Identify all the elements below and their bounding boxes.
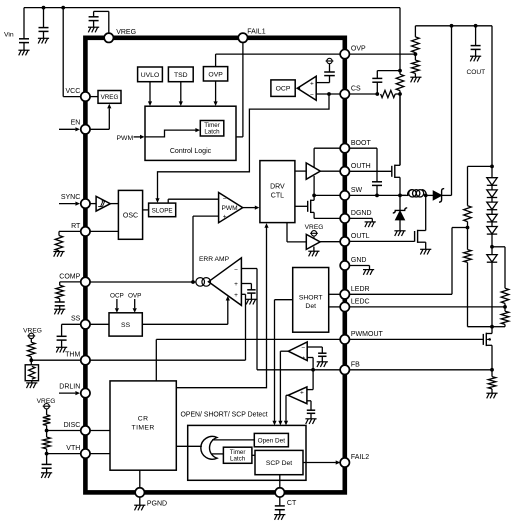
svg-text:SHORT: SHORT [299, 294, 323, 301]
svg-text:SYNC: SYNC [61, 194, 80, 201]
resistor R_led4 [501, 311, 509, 324]
svg-text:PWM: PWM [222, 205, 238, 212]
ground (C_ct) [274, 514, 285, 516]
wire FB to cmp2 + [312, 370, 314, 390]
FAIL2 pin [340, 458, 349, 467]
transistor Q2 (external NMOS) [414, 231, 416, 242]
block OSC [118, 190, 142, 239]
svg-text:BOOT: BOOT [351, 140, 372, 147]
wire DRV to high driver [295, 170, 306, 172]
node Vin rail junction 1 [42, 6, 46, 10]
ground (C_in1) [18, 49, 29, 51]
block VREG regulator [98, 91, 121, 104]
ground (C_vreg) [88, 26, 99, 28]
thermistor TH1 [25, 365, 38, 381]
wire CS to slope path [158, 94, 330, 199]
wire SLOPE to PWM - [167, 199, 169, 203]
wire LEDC external [349, 306, 505, 308]
block SCP Det [255, 450, 303, 474]
arrow SS into ERR AMP [226, 296, 230, 301]
wire THM to ERR +2 [90, 359, 246, 361]
svg-text:DRV: DRV [270, 184, 285, 191]
capacitor C_in2 [39, 27, 49, 29]
wire PWM + to ERR output [192, 216, 194, 282]
svg-text:+: + [310, 81, 314, 88]
node FB junction [311, 368, 315, 372]
resistor R_ovp1 [412, 37, 420, 53]
source VREG (OUTL driver) [311, 231, 316, 236]
wire LED tap to R1 [468, 165, 493, 167]
svg-text:RT: RT [71, 223, 81, 230]
diode D2 (freewheel schottky) [399, 195, 401, 210]
svg-text:OUTH: OUTH [351, 163, 371, 170]
ground (C_errp) [246, 298, 257, 300]
wire Vin to VCC pin [62, 8, 64, 97]
node LEDR divider tap [466, 226, 470, 230]
arrow SYNC input [59, 203, 75, 205]
wire Timer Latch to SCP Det [252, 454, 255, 456]
block Timer Latch (control logic) [200, 121, 224, 137]
comparator U_cmp2 [288, 387, 307, 404]
node OVP divider tap [414, 52, 418, 56]
EN pin [81, 125, 90, 134]
capacitor C_ss [57, 335, 67, 337]
svg-text:OVP: OVP [351, 46, 366, 53]
wire cmp1 - to cap [307, 346, 322, 348]
capacitor C_in1 [19, 38, 29, 40]
wire R_led4 to bottom node [504, 324, 506, 326]
wire LEDC to SHORT Det [329, 306, 341, 308]
wire R_ovp2 to ground [414, 73, 416, 77]
FAIL1 pin [238, 33, 247, 42]
VTH pin [81, 449, 90, 458]
LEDR pin [340, 290, 349, 299]
arrow EN input [59, 128, 75, 130]
block UVLO [138, 67, 163, 82]
wire DISC divider upper [46, 409, 48, 415]
wire cmp2 output to detect [286, 394, 288, 396]
arrow into SLOPE [155, 198, 159, 203]
svg-text:PWMOUT: PWMOUT [351, 331, 384, 338]
svg-text:−: − [223, 196, 227, 203]
wire OCP - input to CS [316, 93, 340, 95]
resistor R_led3 [501, 288, 509, 303]
node CS internal tap [327, 92, 331, 96]
wire OUTL to FET2 gate [349, 240, 414, 242]
wire SS external [62, 323, 81, 325]
block OCP [271, 80, 295, 97]
SYNC pin [81, 199, 90, 208]
buffer SYNC schmitt [90, 203, 96, 205]
svg-text:DGND: DGND [351, 210, 372, 217]
node VOUT-diode junction [450, 24, 454, 28]
svg-text:Open Det: Open Det [258, 437, 286, 444]
arrow cmp1 into detect [278, 421, 282, 426]
wire ERR - input [241, 268, 257, 270]
wire CR TIMER to PGND [139, 470, 141, 488]
arrow PWM to DRV CTL [243, 207, 255, 209]
resistor R_sense [396, 74, 404, 90]
transistor Q3 (PWM dimming NMOS) [482, 334, 484, 345]
node sense node X [398, 92, 402, 96]
symbol ERR AMP output stage [196, 278, 205, 287]
wire Vin input leg [23, 8, 25, 39]
wire OUTH to FET1 gate [349, 170, 391, 172]
GND pin [340, 261, 349, 270]
THM pin [81, 356, 90, 365]
wire SW internal [314, 194, 340, 196]
wire LEDR external [349, 293, 452, 295]
wire SS block to ERR AMP [142, 323, 228, 325]
capacitor C_cmp1 [318, 352, 326, 354]
svg-text:−: − [300, 399, 304, 406]
LEDC pin [340, 302, 349, 311]
capacitor C_errp [247, 289, 255, 291]
comparator OCP (U_ocp) [297, 76, 316, 100]
node LED string top [490, 165, 494, 169]
block SS [109, 313, 142, 336]
RT pin [81, 227, 90, 236]
svg-text:−: − [234, 267, 238, 274]
svg-text:OCP: OCP [110, 292, 124, 299]
arrow EN into VREG [108, 108, 110, 129]
svg-text:Vin: Vin [4, 31, 14, 38]
block CR TIMER [110, 381, 176, 470]
ground (C_ss) [56, 346, 67, 348]
wire LED string [491, 166, 493, 326]
svg-text:COMP: COMP [59, 273, 80, 280]
node FB sense junction [490, 368, 494, 372]
wire DISC to CR TIMER [90, 430, 110, 432]
svg-text:CTL: CTL [271, 193, 284, 200]
wire OUTL driver to pin [320, 241, 340, 243]
wire FB internal [257, 369, 340, 371]
capacitor C_ocp_ref [324, 71, 335, 73]
resistor R_led1 [464, 206, 472, 222]
ground (OVP divider) [410, 76, 421, 78]
svg-text:−: − [310, 92, 314, 99]
wire SW external [349, 194, 406, 196]
BOOT pin [340, 144, 349, 153]
FB pin [340, 365, 349, 374]
arrow SHORT Det into detect [272, 421, 276, 426]
ground (C_vth) [41, 472, 52, 474]
block detect outer [188, 425, 306, 480]
wire COMP external [60, 281, 81, 283]
wire SS pin to SS block [90, 323, 109, 325]
resistor R_vth [43, 437, 51, 449]
wire EN to VREG block [90, 128, 109, 130]
source VREG (THM) [29, 333, 34, 338]
ground (R_fb) [486, 392, 497, 394]
wire sense node to FET1 drain [399, 94, 401, 165]
svg-text:CT: CT [287, 500, 297, 507]
wire inductor to junction [400, 194, 409, 196]
wire R_fb to ground [491, 389, 493, 393]
wire C_cs leads [376, 82, 378, 94]
svg-text:COUT: COUT [466, 69, 485, 76]
wire diode cathode to VOUT [451, 26, 453, 196]
diode D1 (series schottky) [433, 191, 441, 200]
block Open Det [254, 433, 288, 446]
node COMP junction [191, 280, 195, 284]
svg-text:Control Logic: Control Logic [170, 148, 212, 155]
block OVP detector [203, 67, 227, 81]
ground (DGND) [365, 221, 376, 223]
wire R to sense node [395, 93, 400, 95]
wire DISC divider lower [46, 431, 48, 438]
wire SHORT Det to detect block [275, 299, 293, 301]
svg-text:VTH: VTH [66, 445, 80, 452]
block DRV CTL [260, 161, 295, 223]
capacitor C_comp [55, 301, 65, 303]
svg-text:CS: CS [351, 86, 361, 93]
VREG pin [104, 33, 113, 42]
svg-text:OVP: OVP [128, 292, 142, 299]
wire VREG pin decoupling [108, 11, 110, 33]
wire PWMOUT internal [156, 338, 340, 340]
block SLOPE [149, 203, 176, 217]
svg-text:GND: GND [351, 257, 367, 264]
block SHORT Det [293, 268, 329, 333]
svg-text:−: − [301, 345, 305, 352]
svg-text:OCP: OCP [276, 86, 291, 93]
svg-text:OSC: OSC [123, 212, 138, 219]
wire to C_in2 [43, 8, 45, 28]
node Vin rail junction 2 [61, 6, 65, 10]
svg-text:LEDC: LEDC [351, 299, 370, 306]
svg-text:EN: EN [71, 120, 81, 127]
wire OVP pin to divider [345, 53, 416, 55]
node VOUT-COUT junction [474, 24, 478, 28]
svg-text:LEDR: LEDR [351, 286, 370, 293]
wire CS pin to RC [345, 93, 378, 95]
DGND pin [340, 214, 349, 223]
svg-text:CR: CR [138, 416, 149, 423]
svg-text:+: + [223, 214, 227, 221]
arrow CR TIMER to DRV CTL [176, 227, 266, 388]
arrow OVP to SS [134, 299, 136, 308]
svg-text:OUTL: OUTL [351, 233, 370, 240]
wire THM divider [30, 339, 32, 343]
wire OUTL driver ground lead [313, 247, 315, 252]
DISC pin [81, 426, 90, 435]
CS pin [340, 89, 349, 98]
wire COUT leg [475, 26, 477, 46]
resistor R_cs_filter [381, 90, 396, 97]
capacitor COUT [471, 45, 481, 47]
ground (Q2 source) [420, 248, 431, 250]
svg-text:+: + [234, 281, 238, 288]
wire DRV to OUTL driver [286, 223, 288, 242]
capacitor C_cmp2 [307, 409, 315, 411]
ground (COUT) [470, 55, 481, 57]
wire OR to Open Det [212, 439, 254, 441]
svg-text:FAIL1: FAIL1 [247, 28, 265, 35]
resistor R_rt [55, 236, 63, 251]
wire FB external [349, 369, 492, 371]
resistor R_fb [488, 377, 496, 389]
ground (R_rt) [53, 251, 64, 253]
comparator U_cmp1 [288, 342, 307, 361]
svg-text:THM: THM [65, 352, 80, 359]
comparator PWM (U_pwm) [219, 193, 243, 223]
arrow OCP comparator output [296, 86, 300, 90]
ground (COMP) [54, 308, 65, 310]
wire SCP Det to CT [279, 475, 281, 488]
svg-text:TIMER: TIMER [132, 425, 155, 432]
wire VTH cap leads [46, 454, 48, 465]
PGND pin [135, 488, 144, 497]
OUTL pin [340, 237, 349, 246]
svg-text:OPEN/ SHORT/ SCP Detect: OPEN/ SHORT/ SCP Detect [181, 412, 268, 419]
svg-text:+: + [301, 355, 305, 362]
source VREG (DISC) [44, 404, 49, 409]
node DISC tap [45, 429, 49, 433]
wire OR to Timer Latch [212, 453, 223, 455]
driver high-side [306, 163, 320, 179]
wire CT cap leads [279, 497, 281, 506]
OVP pin [340, 49, 349, 58]
node LED string tap [490, 245, 494, 249]
svg-text:VREG: VREG [116, 29, 136, 36]
wire OCP reference chain [329, 64, 331, 72]
svg-text:VCC: VCC [66, 88, 81, 95]
node CS RC junction A [375, 92, 379, 96]
SW pin [340, 191, 349, 200]
ground (C_cmp1) [317, 361, 328, 363]
CT pin [275, 488, 284, 497]
ground (PGND) [134, 504, 145, 506]
COMP pin [81, 277, 90, 286]
wire tap to R3 chain [492, 246, 505, 248]
capacitor C_vth [42, 463, 52, 465]
svg-text:FAIL2: FAIL2 [351, 454, 369, 461]
gate OR (detect) [201, 436, 217, 459]
IC boundary [85, 38, 344, 493]
svg-text:SS: SS [121, 322, 131, 329]
ground (C_in2) [38, 37, 49, 39]
wire LEDR to SHORT Det [329, 293, 341, 295]
SS pin [81, 320, 90, 329]
arrow OCP to SS [116, 299, 118, 308]
svg-text:+: + [300, 389, 304, 396]
arrow OVP to Control Logic [215, 81, 217, 102]
ground (freewheel diode) [394, 230, 405, 232]
arrow UVLO to Control Logic [149, 82, 151, 102]
wire COMP to ERR AMP output [90, 281, 196, 283]
wire PGND ground lead [139, 497, 141, 505]
arrow PWM into Control Logic [134, 136, 140, 138]
svg-text:OVP: OVP [208, 71, 223, 78]
ground (OUTL driver) [308, 250, 319, 252]
node SW-FET1 junction [398, 194, 402, 198]
wire GND external [349, 265, 369, 267]
svg-text:DISC: DISC [64, 422, 81, 429]
wire cmp2 - to cap [307, 400, 311, 402]
svg-text:Det: Det [305, 303, 316, 310]
LED D6 [487, 255, 497, 262]
resistor R_comp [56, 285, 64, 298]
wire PWMOUT to Q3 gate [349, 338, 483, 340]
wire BOOT to driver [314, 147, 340, 149]
wire VCC to VREG block [90, 96, 98, 98]
node LEDC tap [503, 305, 507, 309]
node SW-C_boot junction [375, 194, 379, 198]
OUTH pin [340, 167, 349, 176]
wire VOUT rail [415, 25, 492, 27]
capacitor C_ct [275, 505, 285, 507]
wire BOOT external [349, 147, 377, 149]
arrow TSD to Control Logic [180, 82, 182, 102]
inductor L1 [409, 190, 416, 197]
wire OVP pin line into IC [216, 53, 341, 55]
node LED bottom junction [490, 325, 494, 329]
ground (GND) [363, 269, 374, 271]
wire RT to OSC [90, 230, 119, 232]
transistor Q1 (external high-side NMOS) [391, 166, 393, 177]
wire ERR +1 cap [241, 283, 251, 285]
ground (C_cmp2) [305, 418, 316, 420]
resistor R_disc [43, 415, 51, 426]
resistor R_ovp2 [412, 60, 420, 73]
wire cmp1 + to FB [307, 357, 313, 359]
wire OSC to SLOPE [143, 209, 149, 211]
node VTH tap [45, 452, 49, 456]
arrow SCP Det to FAIL2 [303, 462, 336, 464]
svg-text:+: + [234, 292, 238, 299]
svg-text:UVLO: UVLO [141, 72, 160, 79]
resistor R_led2 [464, 250, 472, 263]
VCC pin [81, 92, 90, 101]
block Control Logic [145, 106, 236, 160]
node inductor-diode junction [424, 194, 428, 198]
block Timer Latch (detect) [223, 447, 252, 463]
svg-text:SLOPE: SLOPE [152, 207, 173, 214]
wire DGND external [349, 217, 372, 219]
wire R_led2 to bottom node [467, 262, 469, 326]
arrow cmp2 into detect [284, 421, 288, 426]
ground (thermistor) [26, 382, 37, 384]
arrow DRLIN input [59, 392, 75, 394]
svg-text:VREG: VREG [101, 94, 119, 101]
wire Vin rail [24, 7, 400, 9]
node SW internal junction [312, 194, 316, 198]
node THM tap [29, 358, 33, 362]
LED string diodes [487, 178, 497, 185]
wire RT external [59, 230, 81, 232]
svg-text:ERR AMP: ERR AMP [199, 256, 230, 263]
node sense node Y [398, 69, 402, 73]
wire cmp1 output to detect [280, 350, 288, 352]
wire diode to VOUT riser [441, 194, 451, 196]
svg-text:FB: FB [351, 361, 360, 368]
svg-text:Latch: Latch [230, 456, 246, 463]
PWMOUT pin [340, 335, 349, 344]
op-amp ERR AMP [209, 258, 242, 306]
capacitor C_vreg [89, 16, 99, 18]
svg-text:DRLIN: DRLIN [59, 383, 80, 390]
wire PWM to Timer Latch [145, 130, 196, 137]
wire VTH to CR TIMER [90, 453, 110, 455]
wire FAIL1 to Control Logic [242, 42, 244, 136]
svg-text:PWM: PWM [117, 135, 134, 142]
DRLIN pin [81, 388, 90, 397]
svg-text:Latch: Latch [204, 128, 220, 135]
transistor Q_ls (internal NMOS) [307, 201, 309, 212]
block TSD [168, 67, 193, 82]
svg-text:SS: SS [71, 316, 81, 323]
